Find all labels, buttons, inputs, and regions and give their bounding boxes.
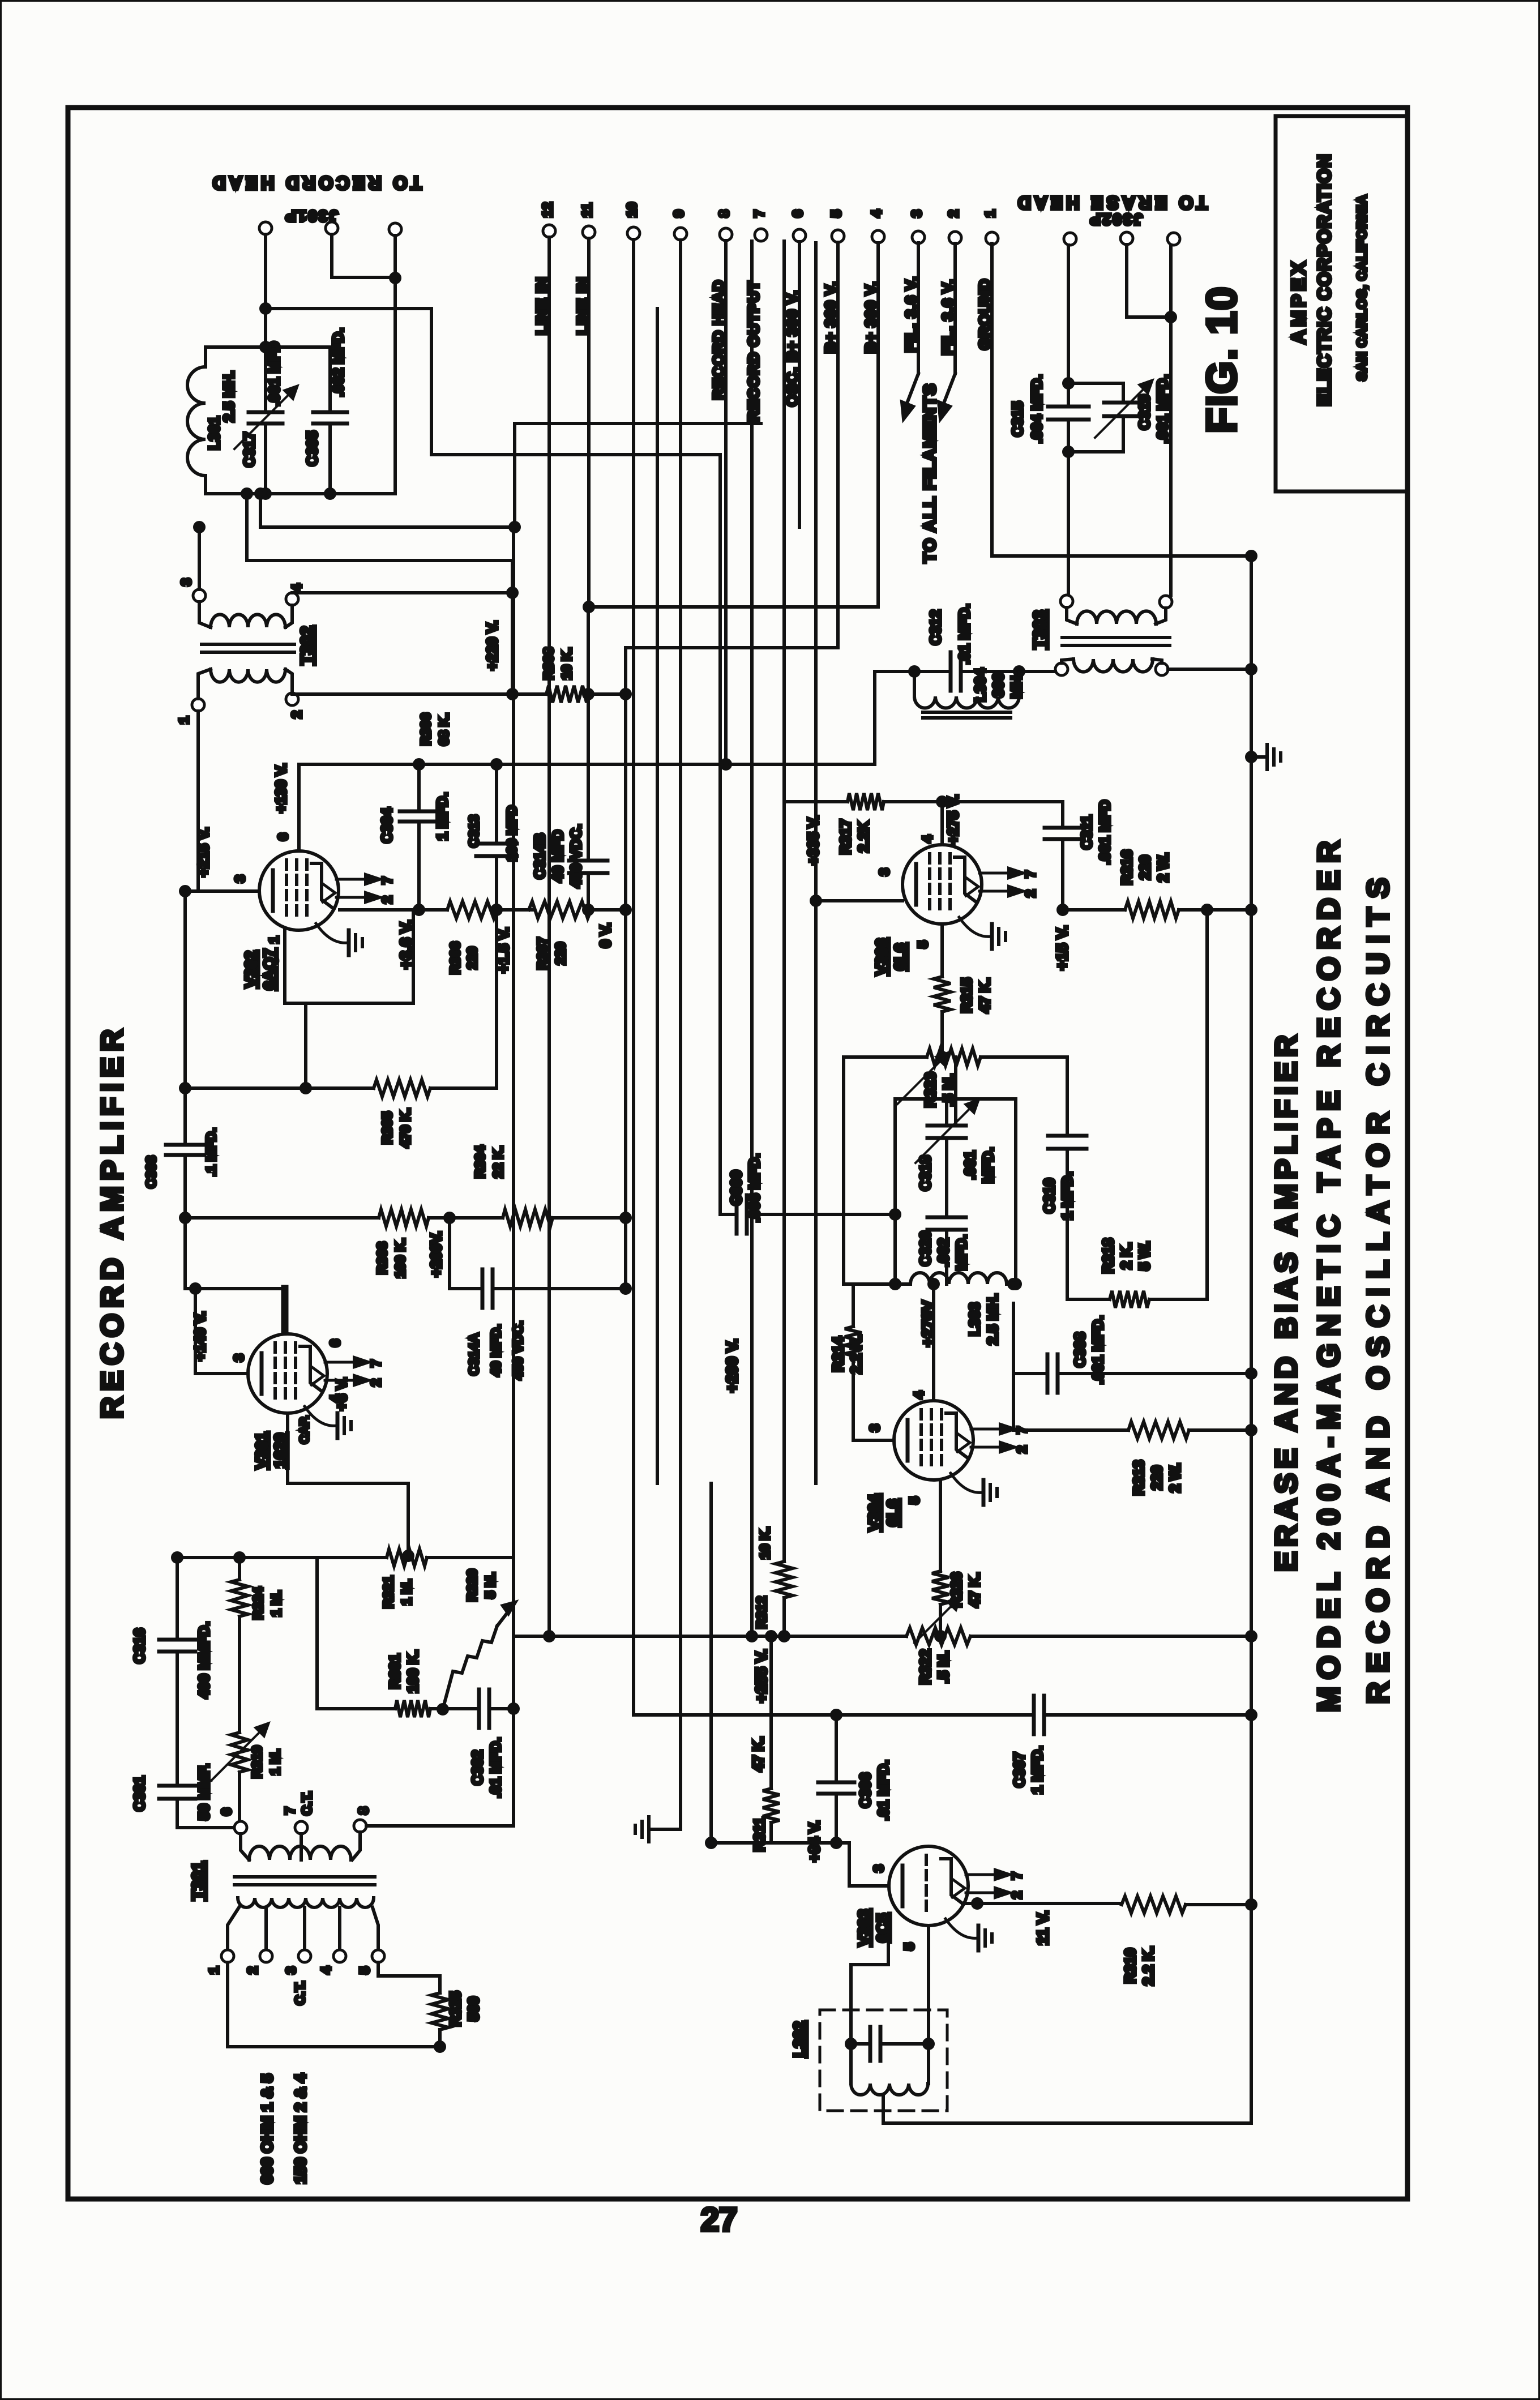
svg-text:.006 MFD.: .006 MFD. bbox=[746, 1153, 763, 1222]
wire R313 drop bbox=[1012, 1374, 1015, 1430]
junction +200V bus bbox=[747, 1632, 756, 1641]
svg-text:.001: .001 bbox=[961, 1151, 978, 1180]
bus wire t9 bbox=[679, 240, 682, 1829]
T303 secondary left bbox=[1060, 595, 1073, 608]
svg-text:C317: C317 bbox=[241, 432, 258, 467]
svg-text:1: 1 bbox=[207, 1966, 222, 1974]
terminal 5 bbox=[832, 230, 844, 242]
svg-text:+220 V.: +220 V. bbox=[484, 621, 500, 670]
terminal 9 bbox=[674, 228, 687, 240]
terminal 11 bbox=[583, 226, 595, 238]
wire line y3029 bbox=[634, 1713, 1034, 1717]
wire R313 right bbox=[1189, 1428, 1251, 1432]
wire R312 bottom bbox=[782, 1598, 786, 1636]
svg-text:R318: R318 bbox=[1100, 1238, 1116, 1273]
junction C303 R303 bbox=[181, 1213, 190, 1222]
svg-text:R303: R303 bbox=[375, 1242, 390, 1274]
wire V301 plate lead bbox=[195, 1289, 248, 1374]
wire L303 right bbox=[1007, 1282, 1016, 1286]
capacitor C305 bbox=[313, 410, 347, 414]
capacitor C309 bbox=[735, 1195, 739, 1234]
capacitor C307 bbox=[1032, 1696, 1036, 1734]
wire R323 right bbox=[981, 1055, 1061, 1059]
junction record head b bbox=[391, 273, 400, 283]
wire L302 bottom tap bbox=[883, 2095, 1251, 2123]
svg-text:R322: R322 bbox=[917, 1649, 934, 1684]
svg-text:8: 8 bbox=[356, 1807, 371, 1814]
resistor R316 bbox=[1125, 901, 1179, 918]
svg-text:560: 560 bbox=[465, 1996, 482, 2021]
svg-text:220: 220 bbox=[465, 947, 480, 969]
erase head terminal a bbox=[1064, 233, 1076, 245]
wire C308 left bbox=[1013, 1372, 1047, 1375]
junction t12 bus bbox=[545, 1632, 554, 1641]
junction t2 line bbox=[508, 690, 517, 699]
wire C320 bottom bbox=[945, 1230, 948, 1284]
svg-text:MH.: MH. bbox=[1008, 671, 1025, 699]
svg-text:C320: C320 bbox=[917, 1231, 934, 1266]
wire L301 leads bbox=[204, 347, 207, 367]
wire C312 line bbox=[961, 670, 1019, 673]
capacitor C320 bbox=[927, 1216, 966, 1220]
svg-text:R304: R304 bbox=[473, 1145, 488, 1178]
T303 primary right bbox=[1156, 663, 1168, 675]
wire T302 sec left bbox=[199, 602, 211, 627]
wire ground stub bbox=[1251, 755, 1264, 759]
junction C304 bottom bbox=[414, 905, 423, 914]
svg-text:11: 11 bbox=[580, 203, 595, 217]
bus wire t6 bbox=[798, 242, 801, 527]
wire C308 right bbox=[1058, 1372, 1251, 1375]
wire C308 line bbox=[1012, 1303, 1015, 1374]
svg-text:27: 27 bbox=[701, 2201, 738, 2238]
svg-text:J301P: J301P bbox=[284, 207, 338, 225]
record head terminal a bbox=[259, 222, 272, 234]
L304 core line a bbox=[923, 711, 1011, 714]
wire cathode line bbox=[340, 908, 447, 912]
wire R313 left bbox=[1013, 1428, 1128, 1432]
svg-text:C.T.: C.T. bbox=[293, 1981, 308, 2005]
wire R316 line right bbox=[1179, 908, 1251, 912]
resistor R310 bbox=[1122, 1896, 1186, 1913]
svg-text:R319: R319 bbox=[250, 1746, 265, 1778]
svg-text:6L6: 6L6 bbox=[884, 1499, 901, 1526]
svg-text:68 K.: 68 K. bbox=[437, 713, 452, 745]
junction C309 box bbox=[891, 1210, 900, 1219]
ground symbol left bbox=[647, 1817, 651, 1842]
resistor R305 bbox=[374, 1080, 430, 1097]
wire bias feed bbox=[260, 494, 515, 527]
wire L302 cap line bbox=[851, 2042, 870, 2046]
svg-text:+6 V.: +6 V. bbox=[333, 1377, 350, 1410]
wire T302 t1 drop bbox=[198, 711, 259, 891]
svg-text:R312: R312 bbox=[754, 1596, 769, 1628]
wire T301 terminal 4 bbox=[338, 1907, 341, 1950]
capacitor C302 bbox=[477, 1689, 481, 1728]
svg-text:C309: C309 bbox=[728, 1170, 745, 1205]
junction bus 1226 bbox=[621, 690, 630, 699]
svg-text:C316: C316 bbox=[131, 1628, 148, 1663]
wire C315 lower bbox=[1067, 420, 1070, 452]
wire V302 grid riser bbox=[183, 891, 187, 1088]
junction T303 rail bbox=[1247, 665, 1256, 674]
junction y3029 c306 bbox=[832, 1710, 841, 1719]
junction bias feed t bbox=[510, 523, 519, 532]
junction y2890 rail bbox=[1247, 1632, 1256, 1641]
wire L302 left down bbox=[849, 2044, 853, 2084]
wire C314A branch bbox=[448, 1218, 451, 1289]
T302 terminal 2 bbox=[286, 693, 298, 705]
resistor R322 bbox=[906, 1628, 970, 1645]
arrow fil b bbox=[944, 374, 955, 403]
junction C307 rail bbox=[1247, 1710, 1256, 1719]
svg-text:T303: T303 bbox=[1030, 610, 1049, 649]
wire erase lead c bbox=[1169, 245, 1173, 596]
terminal 12 bbox=[543, 225, 555, 237]
svg-text:1 MFD.: 1 MFD. bbox=[434, 792, 451, 840]
resistor R308 bbox=[546, 686, 589, 703]
wire ground terminal lead bbox=[992, 243, 1251, 556]
svg-text:C314A: C314A bbox=[467, 1333, 482, 1376]
wire C301 bottom bbox=[177, 1799, 234, 1828]
wire C310 lower bbox=[1066, 1149, 1069, 1299]
wire C317 branch lower bbox=[264, 423, 267, 494]
resistor R319 bbox=[231, 1732, 248, 1772]
resistor R312 bbox=[776, 1562, 793, 1598]
ground stub V303 bbox=[946, 1919, 978, 1938]
wire R311 top bbox=[769, 1636, 773, 1789]
resistor R311 bbox=[763, 1789, 780, 1823]
svg-text:600 OHM 1 & 5: 600 OHM 1 & 5 bbox=[258, 2074, 276, 2184]
T301 terminal 6 bbox=[234, 1821, 247, 1834]
wire R314 top bbox=[852, 1284, 855, 1327]
svg-text:.1 MFD.: .1 MFD. bbox=[204, 1128, 219, 1176]
T303 secondary right bbox=[1160, 596, 1172, 608]
wire C305 branch bbox=[328, 347, 332, 412]
junction tank bottom b bbox=[326, 489, 335, 498]
pot arrow R319 bbox=[211, 1724, 268, 1781]
wire T303 prim right stub bbox=[1152, 659, 1162, 663]
wire L302 right down bbox=[927, 2044, 930, 2084]
svg-text:C302: C302 bbox=[469, 1750, 486, 1785]
wire L302 top tap bbox=[849, 1965, 853, 2044]
wire L303 left bbox=[895, 1282, 910, 1286]
svg-text:5: 5 bbox=[916, 940, 931, 948]
resistor R313 bbox=[1128, 1422, 1189, 1439]
junction erase b bbox=[1166, 313, 1175, 322]
wire V304 plate bbox=[932, 1284, 935, 1400]
svg-text:47 K.: 47 K. bbox=[976, 978, 993, 1013]
svg-text:2.2 K.: 2.2 K. bbox=[848, 1334, 865, 1374]
svg-text:CAP.: CAP. bbox=[297, 1415, 311, 1444]
junction R306 R307 bbox=[492, 905, 501, 914]
svg-text:2: 2 bbox=[380, 896, 395, 903]
svg-text:R306: R306 bbox=[448, 942, 463, 974]
wire R601 line bbox=[317, 1707, 395, 1710]
junction C311 bottom bbox=[1058, 905, 1067, 914]
junction bus R304 bbox=[621, 1213, 630, 1222]
wire R303 line left bbox=[185, 1216, 379, 1220]
wire bus 1105 bbox=[624, 648, 627, 1289]
svg-text:3: 3 bbox=[232, 1354, 247, 1361]
svg-text:R306: R306 bbox=[418, 713, 434, 745]
wire C319 branch bbox=[1068, 383, 1123, 403]
wire R319 top bbox=[238, 1616, 241, 1732]
junction t11 bus bbox=[584, 602, 593, 611]
terminal 10 bbox=[627, 227, 640, 239]
wire osc box right bbox=[1014, 1099, 1017, 1284]
junction record output bbox=[242, 489, 251, 498]
wire R601 drop bbox=[315, 1558, 319, 1709]
bus wire line-in bbox=[512, 527, 515, 1826]
junction V302 grid bbox=[181, 887, 190, 896]
svg-text:C303: C303 bbox=[144, 1156, 159, 1188]
capacitor C306 bbox=[818, 1781, 854, 1785]
junction R310 rail bbox=[1247, 1900, 1256, 1909]
wire T301 sec mid bbox=[300, 1834, 303, 1860]
bus wire t11 lead bbox=[587, 238, 591, 607]
bus wire t4 bbox=[876, 243, 880, 607]
wire R305 line bbox=[185, 1086, 374, 1090]
wire R325 bottom bbox=[438, 2030, 442, 2047]
svg-text:.01 MFD.: .01 MFD. bbox=[956, 604, 973, 665]
svg-text:.01 MFD.: .01 MFD. bbox=[487, 1738, 504, 1798]
wire C314A line right bbox=[493, 1287, 626, 1290]
svg-text:C314B: C314B bbox=[531, 833, 548, 879]
svg-text:0 V.: 0 V. bbox=[597, 923, 614, 948]
junction R318 riser bbox=[1203, 905, 1212, 914]
wire T301 sec right bbox=[352, 1832, 360, 1860]
wire T303 sec left bbox=[1067, 608, 1077, 624]
pot arrow R323 bbox=[897, 1053, 948, 1104]
wire line y3029 right bbox=[1044, 1713, 1251, 1717]
svg-text:+200 V.: +200 V. bbox=[723, 1339, 741, 1393]
wire R319 bottom bbox=[238, 1772, 241, 1821]
wire C302 right bbox=[489, 1707, 514, 1710]
inductor L304 bbox=[914, 696, 1019, 708]
svg-text:2.5 MH.: 2.5 MH. bbox=[984, 1293, 1001, 1345]
svg-text:ELECTRIC CORPORATION: ELECTRIC CORPORATION bbox=[1314, 153, 1334, 407]
wire R321 right bbox=[427, 1556, 514, 1559]
svg-text:V302: V302 bbox=[242, 951, 259, 987]
capacitor C319 osc bbox=[927, 1124, 966, 1128]
wire erase lead a lower bbox=[1067, 452, 1070, 595]
svg-text:5: 5 bbox=[829, 210, 844, 217]
wire R308 line right bbox=[589, 692, 626, 696]
junction R308 right bbox=[584, 690, 593, 699]
svg-text:220: 220 bbox=[1148, 1465, 1165, 1490]
capacitor C317 bbox=[249, 410, 283, 414]
svg-text:1 M.: 1 M. bbox=[268, 1749, 283, 1776]
resistor R321 bbox=[387, 1549, 427, 1566]
svg-text:2 W.: 2 W. bbox=[1154, 853, 1171, 882]
resistor R324 bbox=[231, 1580, 248, 1616]
terminal 6 bbox=[793, 229, 806, 242]
wire R316 line left bbox=[1063, 908, 1125, 912]
svg-text:C306: C306 bbox=[857, 1773, 874, 1808]
T301 terminal 3 bbox=[298, 1950, 311, 1962]
wire grid trunk link bbox=[711, 1841, 771, 1845]
wire ground rail bottom bbox=[1250, 1905, 1253, 2123]
inductor L303 bbox=[910, 1273, 1007, 1284]
svg-text:2: 2 bbox=[946, 210, 961, 217]
svg-text:C307: C307 bbox=[1011, 1752, 1028, 1787]
svg-text:2 K.: 2 K. bbox=[1118, 1242, 1135, 1269]
resistor R303 bbox=[379, 1209, 429, 1226]
junction t4 feed bbox=[508, 588, 517, 597]
svg-text:+255 V.: +255 V. bbox=[752, 1649, 770, 1703]
junction V304 plate bbox=[929, 1280, 938, 1289]
svg-text:3: 3 bbox=[284, 1966, 299, 1974]
record head terminal b bbox=[326, 222, 338, 234]
wire R323 tap bbox=[954, 1057, 957, 1099]
svg-text:2.2 K.: 2.2 K. bbox=[1140, 1946, 1157, 1985]
T302 core line a bbox=[202, 643, 294, 646]
svg-text:V304: V304 bbox=[865, 1494, 883, 1531]
resistor R304 bbox=[503, 1209, 553, 1226]
junction R313 rail bbox=[1247, 1426, 1256, 1435]
junction plate lead bbox=[191, 1284, 200, 1293]
wire tank top rail bbox=[206, 345, 330, 349]
svg-text:2.2K: 2.2K bbox=[855, 821, 872, 852]
svg-text:SAN CARLOS, CALIFORNIA: SAN CARLOS, CALIFORNIA bbox=[1354, 195, 1369, 381]
svg-text:7: 7 bbox=[752, 210, 767, 217]
wire C319 bottom link bbox=[945, 1138, 948, 1217]
svg-text:.002 MFD.: .002 MFD. bbox=[330, 328, 346, 396]
ground stub V306 bbox=[959, 917, 992, 936]
junction C315 bottom bbox=[1064, 447, 1073, 456]
svg-text:7: 7 bbox=[380, 876, 395, 884]
svg-text:MFD.: MFD. bbox=[979, 1147, 996, 1183]
T303 primary left bbox=[1055, 663, 1068, 675]
svg-text:RECORD AND OSCILLATOR CIRCUITS: RECORD AND OSCILLATOR CIRCUITS bbox=[1361, 869, 1395, 1704]
svg-text:5 M.: 5 M. bbox=[483, 1572, 498, 1599]
wire R318 left bbox=[1067, 1298, 1110, 1301]
svg-text:300: 300 bbox=[990, 673, 1007, 697]
wire T301 terminal 2 bbox=[264, 1907, 268, 1950]
T301 core line a bbox=[234, 1875, 375, 1879]
trimmer arrow C319 osc bbox=[916, 1101, 978, 1163]
svg-text:R325: R325 bbox=[447, 1991, 464, 2026]
svg-text:C313: C313 bbox=[467, 815, 482, 847]
svg-text:3: 3 bbox=[871, 1864, 887, 1872]
svg-text:10: 10 bbox=[624, 202, 640, 217]
resistor R317 bbox=[848, 793, 884, 810]
wire C309 right bbox=[747, 1213, 895, 1216]
outer border frame bbox=[68, 108, 1408, 2199]
wire T303 prim left stub bbox=[1062, 659, 1073, 663]
svg-text:L302: L302 bbox=[790, 2021, 808, 2057]
T302 terminal 4 bbox=[286, 593, 298, 605]
junction C317 top bbox=[261, 343, 270, 352]
wire T301 terminal 1 bbox=[228, 1907, 239, 1950]
wire t4 jog bbox=[588, 607, 878, 694]
wire V301 cathode bbox=[288, 1413, 408, 1551]
junction y1350 a bbox=[721, 760, 730, 769]
capacitor C311 bbox=[1045, 826, 1081, 830]
wire V302 cathode loop bbox=[285, 910, 413, 1003]
svg-text:7: 7 bbox=[1023, 870, 1038, 878]
wire R318 right bbox=[1149, 1298, 1207, 1301]
junction bus 0V bbox=[621, 905, 630, 914]
terminal 4 bbox=[872, 230, 884, 243]
wire V302 grid link bbox=[185, 889, 198, 893]
svg-text:L303: L303 bbox=[966, 1302, 983, 1336]
wire B+ drop to R317 bbox=[784, 800, 810, 803]
capacitor C315 bbox=[1048, 405, 1089, 409]
svg-text:4: 4 bbox=[319, 1966, 334, 1974]
wire C312 left bbox=[914, 670, 951, 673]
svg-text:T302: T302 bbox=[298, 626, 316, 665]
svg-text:C304: C304 bbox=[378, 807, 395, 843]
svg-text:R323: R323 bbox=[922, 1072, 939, 1107]
junction C315 top bbox=[1064, 379, 1073, 388]
terminal 3 bbox=[912, 231, 925, 243]
wire R317 left bbox=[810, 800, 848, 803]
wire R305 right bbox=[430, 1086, 497, 1090]
svg-text:1 M.: 1 M. bbox=[269, 1590, 284, 1617]
wire C314B branch bbox=[587, 694, 590, 861]
junction C306 bottom bbox=[832, 1838, 841, 1847]
wire V301 grid cap lead bbox=[281, 1289, 289, 1332]
svg-text:R315: R315 bbox=[958, 978, 975, 1013]
svg-text:2: 2 bbox=[1009, 1891, 1025, 1898]
wire V303 plate line bbox=[962, 1902, 1122, 1905]
T303 core line a bbox=[1062, 636, 1170, 639]
terminal 7 bbox=[755, 229, 767, 241]
wire osc box top tap bbox=[954, 1099, 957, 1126]
wire C314A line left bbox=[450, 1287, 482, 1290]
tube V306 6L6 bbox=[902, 845, 1023, 924]
junction L304 right bbox=[1015, 667, 1024, 676]
wire record head lead a bbox=[264, 234, 267, 347]
wire head line t8 bbox=[724, 241, 728, 764]
wire C302 line bbox=[430, 1707, 479, 1710]
svg-text:R321: R321 bbox=[381, 1576, 396, 1608]
wire R323 left bbox=[844, 1055, 927, 1059]
wire T301 sec left bbox=[241, 1834, 249, 1860]
inductor L302 winding bbox=[851, 2084, 928, 2095]
svg-text:C311: C311 bbox=[1078, 815, 1095, 850]
svg-text:50 MMF.: 50 MMF. bbox=[195, 1764, 212, 1820]
bus wire mid a bbox=[656, 309, 659, 1483]
svg-text:C301: C301 bbox=[131, 1776, 148, 1811]
svg-text:1 MFD.: 1 MFD. bbox=[1059, 1171, 1076, 1220]
wire fil stub b bbox=[953, 243, 957, 374]
svg-text:5: 5 bbox=[907, 1496, 922, 1504]
T301 terminal 1 bbox=[221, 1950, 234, 1962]
svg-text:4: 4 bbox=[912, 1391, 927, 1399]
title block box bbox=[1276, 116, 1408, 491]
trimmer arrow C319 bbox=[1095, 381, 1152, 438]
svg-text:1: 1 bbox=[983, 210, 998, 217]
wire L304 right drop bbox=[1017, 671, 1021, 696]
svg-text:450 VDC.: 450 VDC. bbox=[567, 824, 584, 888]
svg-text:C305: C305 bbox=[303, 431, 320, 466]
svg-text:5: 5 bbox=[902, 1943, 917, 1950]
wire tank bottom rail bbox=[206, 492, 395, 495]
svg-text:220: 220 bbox=[553, 942, 568, 965]
junction L304 left bbox=[910, 667, 919, 676]
wire T301 terminal 3 bbox=[303, 1907, 306, 1950]
junction t3 riser bbox=[195, 523, 204, 532]
svg-text:R316: R316 bbox=[1118, 850, 1135, 885]
erase head terminal b bbox=[1120, 232, 1133, 245]
junction C308 top bbox=[1009, 1280, 1018, 1289]
svg-text:+215 V.: +215 V. bbox=[195, 827, 212, 877]
oscillator coil box L302 bbox=[820, 2010, 947, 2111]
junction tank bottom a bbox=[261, 489, 270, 498]
